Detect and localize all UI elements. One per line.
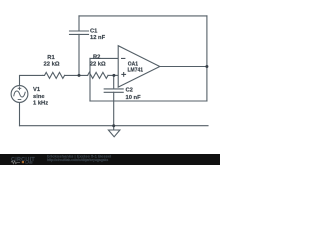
svg-text:http://circuitlab.com/c/dbjark: http://circuitlab.com/c/dbjarkeyugagsks — [47, 158, 108, 162]
svg-text:C2: C2 — [126, 87, 133, 93]
resistor R1 — [43, 72, 65, 78]
wire lower feedback horizontal — [90, 100, 207, 102]
op-amp non-inverting input plus sign — [121, 73, 126, 75]
svg-text:sine: sine — [33, 94, 45, 100]
ground symbol — [108, 130, 120, 137]
V1 sine wave — [14, 91, 25, 97]
voltage source V1 circle — [11, 86, 28, 103]
junction ground node dot — [112, 124, 115, 127]
wire R2 to non-inverting input — [108, 74, 118, 76]
op-amp inverting input minus sign — [121, 58, 126, 76]
wire inverting input — [90, 57, 118, 59]
wire R1 to node A — [65, 74, 88, 76]
footer CircuitLab logo — [11, 157, 35, 165]
svg-text:R2: R2 — [93, 55, 100, 61]
junction node B dot — [112, 74, 115, 77]
svg-text:C1: C1 — [90, 28, 98, 34]
footer banner — [0, 154, 220, 165]
svg-text:1 kHz: 1 kHz — [33, 100, 48, 106]
svg-text:12 nF: 12 nF — [90, 35, 106, 41]
svg-text:22 kΩ: 22 kΩ — [90, 61, 106, 67]
capacitor C2 plates — [104, 88, 123, 90]
wire V1 top to row — [20, 75, 43, 85]
wire V1 bottom to rail — [19, 102, 21, 125]
V1 minus terminal mark — [18, 99, 22, 101]
resistor R2 — [88, 72, 108, 78]
wire left feedback vertical to inverting input — [89, 58, 91, 101]
svg-text:V1: V1 — [33, 87, 41, 93]
wire right feedback vertical — [206, 16, 208, 101]
capacitor C1 plates — [70, 30, 89, 32]
junction node A dot — [78, 74, 81, 77]
op-amp OA1 triangle — [118, 46, 160, 87]
V1 plus terminal mark — [18, 87, 22, 100]
capacitor C1 leads — [78, 16, 80, 31]
op-amp output wire — [160, 66, 207, 68]
svg-text:10 nF: 10 nF — [126, 95, 142, 101]
capacitor C2 leads — [113, 75, 115, 89]
svg-text:R1: R1 — [47, 55, 55, 61]
svg-text:LM741: LM741 — [128, 68, 144, 74]
svg-text:22 kΩ: 22 kΩ — [44, 61, 60, 67]
svg-text:LAB: LAB — [25, 161, 33, 165]
junction output node dot — [205, 65, 208, 68]
ground rail wire — [20, 125, 209, 127]
svg-text:OA1: OA1 — [128, 61, 139, 67]
wire top feedback horizontal — [79, 15, 207, 17]
